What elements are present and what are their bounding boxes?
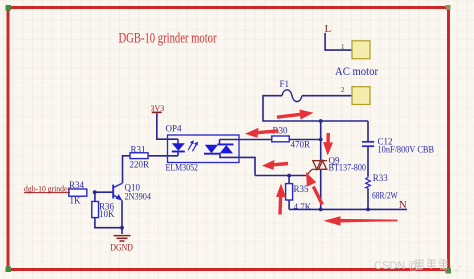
svg-text:F1: F1: [280, 79, 290, 89]
svg-text:10nF/800V CBB: 10nF/800V CBB: [378, 144, 435, 154]
svg-text:N: N: [399, 199, 407, 211]
svg-text:4.7K: 4.7K: [294, 202, 312, 212]
svg-text:AC motor: AC motor: [335, 66, 378, 78]
svg-text:R33: R33: [373, 173, 389, 183]
svg-text:R35: R35: [294, 184, 310, 194]
svg-text:220R: 220R: [130, 160, 150, 170]
svg-text:2N3904: 2N3904: [125, 191, 152, 201]
svg-text:DGND: DGND: [110, 243, 133, 253]
svg-text:2: 2: [341, 86, 345, 94]
svg-text:470R: 470R: [291, 139, 311, 149]
svg-text:68R/2W: 68R/2W: [372, 190, 398, 200]
svg-text:OP4: OP4: [166, 124, 183, 134]
svg-text:ELM3052: ELM3052: [166, 163, 199, 173]
svg-text:R34: R34: [69, 180, 85, 190]
svg-text:10K: 10K: [99, 209, 115, 219]
svg-text:BT137-800: BT137-800: [329, 162, 367, 172]
svg-text:1K: 1K: [70, 196, 82, 206]
svg-text:1: 1: [341, 43, 345, 51]
svg-text:dgb-10 grinder: dgb-10 grinder: [24, 185, 70, 194]
svg-text:DGB-10 grinder motor: DGB-10 grinder motor: [119, 31, 217, 47]
svg-text:L: L: [325, 23, 332, 35]
svg-text:R31: R31: [131, 145, 146, 155]
svg-text:-_-: -_-: [450, 261, 461, 271]
svg-text:CSDN @: CSDN @: [374, 260, 419, 272]
svg-text:3V3: 3V3: [151, 104, 165, 113]
